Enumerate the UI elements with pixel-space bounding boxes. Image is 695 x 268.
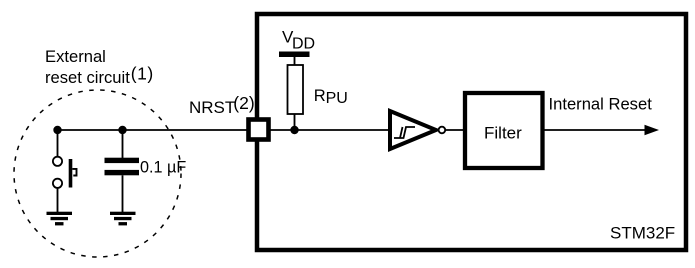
wire: Schmitt output to filter	[445, 129, 463, 131]
label: NRST(2)	[189, 93, 255, 117]
power: VDD symbol	[279, 28, 315, 66]
dashed circle: external reset circuit boundary	[14, 90, 181, 257]
wire: internal reset output with arrow	[545, 125, 660, 135]
capacitor C1 0.1uF	[105, 130, 140, 212]
svg-text:R: R	[314, 87, 326, 105]
filter block	[465, 93, 543, 168]
node: junction dot at capacitor	[118, 126, 126, 134]
ground: push button ground	[47, 212, 73, 226]
label: RPU	[314, 87, 348, 107]
svg-text:0.1 µF: 0.1 µF	[140, 159, 186, 177]
ground: capacitor ground	[110, 212, 136, 226]
svg-text:(2): (2)	[233, 93, 254, 113]
label: STM32F	[610, 224, 675, 243]
Schmitt trigger inverter U1	[390, 111, 445, 149]
node: junction dot below RPU	[290, 126, 298, 134]
label: Internal Reset	[549, 95, 653, 114]
svg-text:NRST: NRST	[189, 98, 235, 117]
resistor RPU	[288, 65, 304, 130]
svg-text:reset circuit: reset circuit	[45, 68, 130, 87]
svg-text:(1): (1)	[131, 64, 154, 84]
node: junction dot at push button	[53, 126, 61, 134]
wire: main horizontal NRST net (button node to Schmitt input)	[58, 129, 390, 131]
label: 0.1 uF value	[140, 159, 186, 177]
svg-text:Filter: Filter	[484, 124, 522, 143]
push button B1	[53, 130, 77, 212]
label: External reset circuit(1)	[45, 47, 154, 87]
STM32F device boundary rectangle	[257, 14, 686, 250]
svg-text:PU: PU	[326, 90, 348, 107]
svg-text:STM32F: STM32F	[610, 224, 675, 243]
pin: NRST pad (square on boundary)	[249, 120, 269, 140]
svg-text:DD: DD	[292, 36, 315, 53]
svg-text:External: External	[45, 47, 106, 66]
svg-text:Internal Reset: Internal Reset	[549, 95, 653, 114]
